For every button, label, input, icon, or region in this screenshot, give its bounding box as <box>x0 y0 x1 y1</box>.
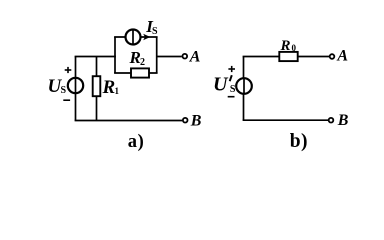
svg-text:2: 2 <box>140 57 145 68</box>
svg-text:0: 0 <box>292 43 297 53</box>
svg-text:R: R <box>102 77 116 98</box>
svg-text:R: R <box>129 48 141 67</box>
svg-text:A: A <box>336 48 348 65</box>
svg-text:a): a) <box>128 132 145 152</box>
svg-text:S: S <box>152 26 158 37</box>
svg-text:R: R <box>280 38 291 54</box>
svg-text:A: A <box>189 49 201 66</box>
svg-text:B: B <box>190 113 202 130</box>
svg-text:S: S <box>230 84 236 95</box>
svg-text:B: B <box>337 112 349 129</box>
svg-text:1: 1 <box>115 86 120 96</box>
svg-text:b): b) <box>290 131 308 152</box>
svg-text:U: U <box>213 74 229 96</box>
svg-text:S: S <box>61 85 67 96</box>
